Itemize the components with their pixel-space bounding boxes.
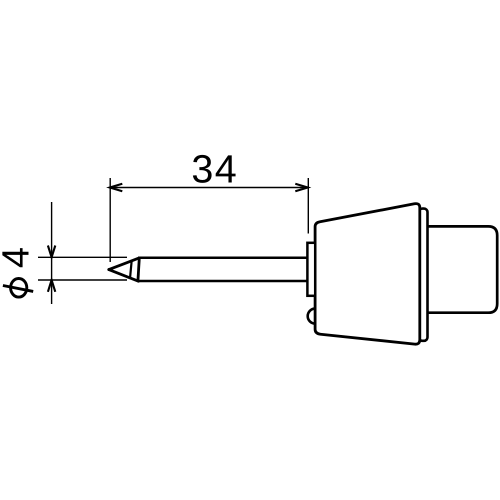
body (tapered grip) <box>315 204 420 345</box>
dim phi4: bottom extension line <box>38 279 127 281</box>
dim phi4: top extension line <box>38 256 127 258</box>
shaft (rear cylinder) <box>427 226 497 312</box>
svg-text:4: 4 <box>0 247 37 268</box>
svg-text:34: 34 <box>191 147 238 191</box>
rod bottom edge <box>138 280 308 283</box>
dim 34: left extension line <box>109 178 111 262</box>
dim 34: dimension line <box>110 187 308 189</box>
cone tip bottom edge <box>109 270 139 282</box>
rod top edge <box>138 257 307 260</box>
dim phi4: phi symbol circle <box>11 279 27 298</box>
dim phi4: up arrowhead <box>48 280 55 292</box>
bump (locating pin) <box>308 309 323 324</box>
dim 34: right arrowhead <box>295 184 307 191</box>
cap ridge <box>419 209 428 341</box>
dim phi4: down arrowhead <box>48 246 55 258</box>
dim phi4: phi symbol slash <box>3 286 33 292</box>
dim phi4: dimension line <box>51 202 53 304</box>
flange collar <box>307 243 315 296</box>
cone tip top edge <box>109 258 139 270</box>
plating boundary line <box>130 260 132 277</box>
dim 34: right extension line <box>307 178 309 234</box>
dim 34: left arrowhead <box>110 184 123 191</box>
cone base junction line <box>138 258 139 281</box>
